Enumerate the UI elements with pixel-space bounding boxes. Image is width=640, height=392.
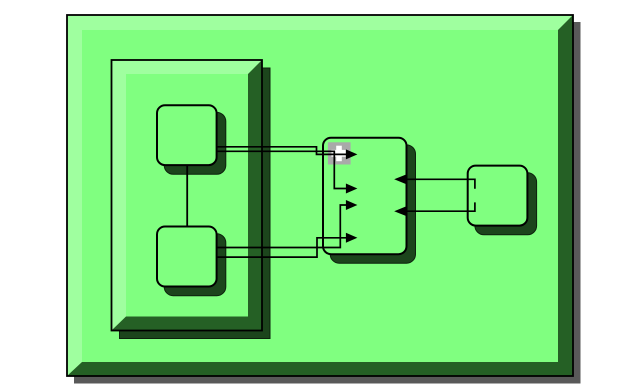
wire S1-S2 vertical connector bbox=[186, 165, 188, 227]
inner beveled panel bbox=[112, 60, 263, 331]
block S2 (bottom-left rounded square) bbox=[157, 227, 217, 287]
wire W3: S2 upper output to arrow 3 bbox=[217, 205, 347, 248]
right block shadow bbox=[475, 173, 537, 235]
outer panel border bbox=[67, 15, 573, 376]
inner panel drop shadow bbox=[120, 68, 271, 339]
inner bevel dark (bottom+right) bbox=[112, 60, 263, 331]
outer bevel dark (bottom+right) bbox=[67, 15, 573, 376]
central block shadow bbox=[330, 145, 415, 263]
wire W5: right block port 1 to arrow 5 bbox=[406, 179, 475, 188]
arrowhead 1 bbox=[346, 149, 358, 159]
wire W1: S1 upper output to arrow 1 bbox=[217, 147, 347, 155]
cursor icon (gray square with white plus) bbox=[328, 142, 351, 164]
arrowhead 4 bbox=[346, 233, 358, 243]
outer beveled panel bbox=[67, 15, 573, 376]
arrowhead 5 (points left) bbox=[394, 174, 406, 184]
arrowhead 2 bbox=[346, 184, 358, 194]
right block bbox=[468, 166, 528, 226]
block S1 shadow bbox=[164, 112, 226, 174]
wire W6: right block port 2 to arrow 6 bbox=[406, 202, 475, 211]
outer panel drop shadow bbox=[74, 22, 581, 384]
inner bevel light (top+left) bbox=[112, 60, 263, 331]
arrowhead 6 (points left) bbox=[394, 206, 406, 216]
wire W2: S1 lower output to arrow 2 bbox=[217, 151, 347, 188]
outer bevel light (top+left) bbox=[67, 15, 573, 376]
block S2 shadow bbox=[164, 234, 226, 296]
block S1 (top-left rounded square) bbox=[157, 105, 217, 165]
arrowhead 3 bbox=[346, 200, 358, 210]
inner panel border bbox=[112, 60, 263, 331]
wire W4: S2 lower output to arrow 4 bbox=[217, 238, 347, 257]
central block U1 bbox=[323, 138, 407, 255]
